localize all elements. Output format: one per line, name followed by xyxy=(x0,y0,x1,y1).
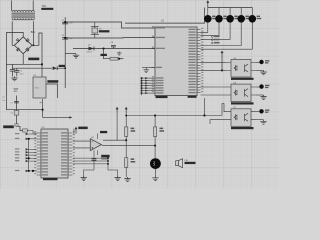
ground near C6 xyxy=(117,52,122,56)
wire U2 to U6 pin1 xyxy=(201,86,227,88)
power arrow +5V top xyxy=(207,2,209,8)
label D5 xyxy=(257,16,260,17)
wire LED D1 cathode to U2 xyxy=(201,23,208,33)
svg-text:1N4148: 1N4148 xyxy=(86,52,92,54)
power arrow R1 rail xyxy=(116,109,118,114)
wire op-amp ground net xyxy=(84,170,94,176)
label U3 part xyxy=(43,178,58,180)
wire U1 ground stub xyxy=(42,99,44,117)
bridge rectifier BR1 xyxy=(14,37,32,54)
label D8 xyxy=(265,110,270,111)
ground op-amp xyxy=(81,176,87,180)
label R2 xyxy=(131,158,135,160)
wire cap ground tap xyxy=(65,53,76,55)
label R3 xyxy=(160,128,164,130)
capacitor C4 xyxy=(14,68,19,76)
optocoupler U7 xyxy=(226,109,256,127)
resistor R3 xyxy=(154,127,157,137)
wire LED D3 anode xyxy=(229,8,231,16)
capacitor C8 below op-amp xyxy=(92,150,97,170)
junction MCLR branch xyxy=(103,48,105,50)
ground under C3 C4 xyxy=(11,76,17,80)
small part on rail xyxy=(15,124,18,126)
svg-text:10u: 10u xyxy=(2,100,5,102)
capacitor C3 xyxy=(10,64,15,76)
LED D8 xyxy=(259,109,263,113)
ground right of C1 C2 xyxy=(73,54,79,58)
microcontroller U3 xyxy=(34,129,75,178)
wire left supply vertical xyxy=(17,96,23,131)
wire RA/RE ladder bus xyxy=(141,76,154,95)
power arrow R2 rail xyxy=(125,109,127,114)
grid background xyxy=(0,0,279,189)
wire LED D5 anode xyxy=(251,8,253,16)
LED D6 xyxy=(259,60,263,64)
wire sounder to ground xyxy=(154,169,156,176)
ground U5 xyxy=(260,70,266,74)
LED D7 xyxy=(259,84,263,88)
net labels xyxy=(211,36,219,44)
wire box to U3 xyxy=(27,131,36,134)
wire BR1 output to regulator input xyxy=(32,33,42,77)
label 7805 value xyxy=(47,80,58,83)
wire LED D1 anode xyxy=(207,8,209,16)
wire ground rail horizontal xyxy=(6,63,42,65)
resistor R2 xyxy=(125,158,128,168)
wire LED D2 anode xyxy=(218,8,220,16)
diode D5 xyxy=(89,47,95,51)
wire LED D4 anode xyxy=(240,8,242,16)
junction regulator input node xyxy=(41,63,43,65)
wire R1 to R2 xyxy=(125,137,127,158)
wire R4 to node xyxy=(118,58,124,60)
wire OSC1 net xyxy=(65,22,155,28)
label D7 xyxy=(265,85,270,86)
wire U2 to U5 pin1 xyxy=(201,61,227,63)
ground U7 xyxy=(260,120,266,124)
crystal X1 xyxy=(11,111,19,116)
wire U6 emitter to ground xyxy=(256,94,264,96)
LED D5 xyxy=(249,15,257,23)
label U7 OPTOCOUPLER xyxy=(231,127,254,129)
wire LED D4 cathode to U2 xyxy=(201,23,242,46)
label U5 OPTOCOUPLER xyxy=(231,78,254,80)
wire +5V resistor rail xyxy=(126,115,222,117)
ground under sounder xyxy=(152,176,158,180)
wire U7 emitter to ground xyxy=(256,119,264,121)
wire TR1 secondary right down xyxy=(32,21,34,45)
power arrow opto rail xyxy=(221,52,223,70)
wire OSC2 net xyxy=(65,37,155,39)
wire LED D3 cathode to U2 xyxy=(201,23,231,40)
label R1 xyxy=(131,128,135,130)
wire U2 to U5 pin2 xyxy=(201,69,227,71)
wire LED anode bus xyxy=(208,7,253,9)
wire U5 emitter to ground xyxy=(256,69,264,71)
label D6 xyxy=(265,60,270,61)
wire cap column vertical xyxy=(64,17,66,88)
wire rail to BR1 top vertex xyxy=(6,32,23,36)
connector small box xyxy=(23,129,28,132)
wire rail to R3 xyxy=(154,116,156,127)
label LM358 xyxy=(101,155,109,158)
svg-text:22p: 22p xyxy=(70,23,73,25)
ground U6 xyxy=(260,95,266,99)
wire U6 collector xyxy=(256,86,259,88)
capacitor C6 xyxy=(111,42,116,48)
capacitor C7 xyxy=(11,101,19,104)
sounder BUZ1 xyxy=(150,158,161,169)
wire Vss pin xyxy=(142,67,155,69)
wire U3 to U4 inverting xyxy=(73,140,91,142)
wire LED D2 cathode to U2 xyxy=(201,23,220,36)
wire U7 collector xyxy=(256,111,259,113)
regulator U1 7805 xyxy=(33,77,46,98)
label net REF xyxy=(100,131,107,133)
wire TR1 secondary left to BR1 left vertex xyxy=(12,21,14,45)
ground under R2 xyxy=(124,177,130,181)
wires U3 left inputs xyxy=(15,133,37,172)
wire test point arrow xyxy=(43,116,70,118)
wire BR1 bottom vertex to ground rail xyxy=(22,54,24,65)
svg-text:C7: C7 xyxy=(11,102,13,104)
optocoupler U6 xyxy=(226,84,256,102)
wire U2 to U7 pin1 xyxy=(203,98,205,116)
label 4MHz xyxy=(3,125,14,128)
label 3.3kHz xyxy=(75,128,77,133)
speaker LS1 xyxy=(176,159,183,168)
label U6 OPTOCOUPLER xyxy=(231,102,254,104)
label D3 xyxy=(234,16,237,17)
svg-text:470u: 470u xyxy=(20,74,24,76)
wire U5 collector xyxy=(256,61,259,63)
LED D4 xyxy=(237,15,245,23)
crystal X2 xyxy=(91,22,99,38)
capacitor C1 xyxy=(62,22,68,24)
op-amp U4 xyxy=(90,134,101,156)
wires U3 right taps xyxy=(73,157,118,176)
label D1 xyxy=(212,16,215,17)
svg-text:X1: X1 xyxy=(11,113,13,115)
wire U4 output xyxy=(101,145,155,146)
junction OSC1 cap node xyxy=(64,21,66,23)
wire MCLR net xyxy=(73,48,155,50)
diode D4 xyxy=(53,66,66,70)
LED D2 xyxy=(215,15,223,23)
optocoupler U5 xyxy=(226,60,256,78)
wire U3 to U4 non-inverting xyxy=(73,147,91,149)
label PIC16F877A xyxy=(156,96,168,99)
wire U1 output xyxy=(46,84,58,98)
label D4 xyxy=(246,16,249,17)
svg-text:C5: C5 xyxy=(2,97,4,99)
label BRIDGE xyxy=(28,58,39,61)
resistor R4 xyxy=(110,57,118,60)
svg-text:TR1: TR1 xyxy=(42,5,47,8)
transformer TR1 xyxy=(12,1,36,20)
wire MCLR resistor branch xyxy=(104,49,111,59)
label R4 4k7 xyxy=(101,54,107,56)
wire R2 to ground xyxy=(125,167,127,177)
label mid small text xyxy=(14,88,19,89)
wire U3 frequency stub xyxy=(73,129,75,135)
label D4 1N4007 xyxy=(59,65,66,67)
resistor R1 xyxy=(125,127,128,137)
LED D3 xyxy=(226,15,234,23)
wire left edge vertical rail xyxy=(6,32,42,109)
wire rail lower horizontal xyxy=(13,67,43,69)
capacitor C2 xyxy=(62,38,68,40)
wire U2 to U6 pin2 xyxy=(201,94,227,96)
ground tap column xyxy=(115,176,121,180)
microcontroller U2 PIC16F877A xyxy=(152,26,204,96)
wire U4 feedback xyxy=(103,139,126,141)
ground at U2 Vss xyxy=(143,68,149,73)
LED D1 xyxy=(204,15,212,23)
wire LED D5 cathode to U2 xyxy=(201,23,253,50)
wire U7 pin2 xyxy=(210,120,226,124)
wire R3 to sounder xyxy=(154,137,156,159)
label D2 xyxy=(223,16,226,17)
wire +5V rail over MCU xyxy=(125,8,205,24)
